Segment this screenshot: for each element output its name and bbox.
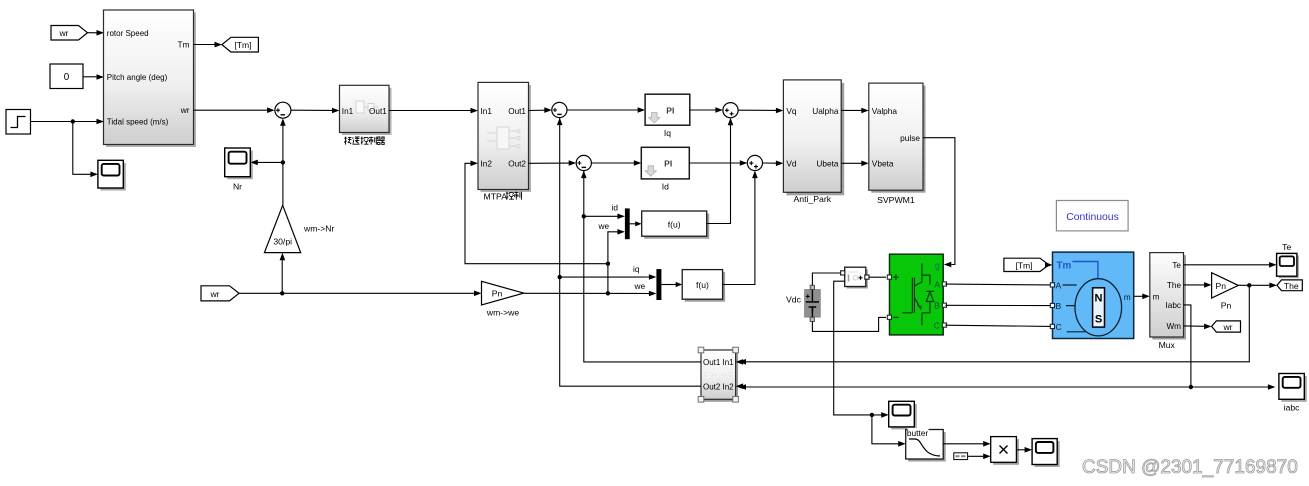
wire current measurement to inverter plus xyxy=(869,276,886,278)
svg-text:In2: In2 xyxy=(723,382,735,391)
wire we to MTPA In2 xyxy=(465,161,608,264)
svg-text:SVPWM1: SVPWM1 xyxy=(877,195,915,205)
svg-text:m: m xyxy=(1124,292,1131,302)
wire Ubeta to Vbeta xyxy=(841,161,869,167)
wire we branch up to mux1 we input xyxy=(608,229,625,293)
svg-text:wm->we: wm->we xyxy=(486,308,519,318)
svg-text:Vq: Vq xyxy=(786,106,797,116)
subsystem SVPWM1 xyxy=(869,83,926,205)
gain 30/pi (wm->Nr) xyxy=(264,205,334,252)
svg-text:Iabc: Iabc xyxy=(1166,301,1181,310)
svg-text:B: B xyxy=(1056,301,1062,311)
sum junction iq loop xyxy=(552,102,567,117)
wire sum to speed controller In1 xyxy=(291,108,340,114)
junction wr to 30/pi xyxy=(280,291,284,295)
svg-text:wm->Nr: wm->Nr xyxy=(303,224,334,234)
svg-text:Pn: Pn xyxy=(492,289,503,299)
wire MTPA Out2 to id sum xyxy=(529,160,577,166)
wire f(u) upper to sum2 plus xyxy=(707,118,734,224)
svg-text:Ualpha: Ualpha xyxy=(812,106,839,116)
svg-text:C: C xyxy=(934,321,940,331)
junction iabc xyxy=(1189,385,1193,389)
svg-text:In1: In1 xyxy=(723,358,735,367)
wire product to scope xyxy=(1016,447,1032,453)
svg-text:iq: iq xyxy=(633,264,640,274)
wire iq branch to mux2 xyxy=(560,274,657,280)
mux1 (id,we) xyxy=(625,208,642,239)
demux Mux block xyxy=(1150,253,1186,350)
gain Pn (wm->we) xyxy=(482,281,524,317)
svg-text:Tidal speed (m/s): Tidal speed (m/s) xyxy=(107,118,169,127)
svg-text:Tm: Tm xyxy=(178,39,190,49)
svg-text:Id: Id xyxy=(662,182,669,192)
junction we to MTPA In2 xyxy=(606,262,610,266)
goto tag The xyxy=(1277,280,1302,291)
wire PI Id to sum4 xyxy=(689,160,747,166)
wire inverter A to motor A xyxy=(945,283,1050,286)
wire wr to Pn gain xyxy=(239,291,482,297)
svg-text:In1: In1 xyxy=(481,107,493,116)
svg-text:Tm: Tm xyxy=(1057,261,1072,272)
svg-text:Vbeta: Vbeta xyxy=(872,158,894,168)
svg-text:C: C xyxy=(1056,322,1062,332)
PI controller Id xyxy=(641,147,689,191)
svg-text:iabc: iabc xyxy=(1284,403,1300,413)
dc source Vdc xyxy=(786,285,820,321)
subsystem dq transform (Out1 In1 / Out2 In2, selected) xyxy=(698,347,743,402)
wire wr tag to turbine rotor Speed input xyxy=(88,30,105,36)
junction The xyxy=(1247,283,1251,287)
junction on 30/pi output xyxy=(281,160,285,164)
wire id sum to PI Id xyxy=(591,160,641,166)
svg-text:Pn: Pn xyxy=(1221,301,1232,311)
svg-text:The: The xyxy=(1167,281,1182,290)
scope power xyxy=(1032,439,1060,467)
small from tag (constant) xyxy=(954,453,968,460)
wire branch down to scope xyxy=(73,122,98,178)
wire Ualpha to Valpha xyxy=(841,108,869,114)
wire Mux Wm to goto tag wr xyxy=(1184,324,1212,330)
svg-text:f(u): f(u) xyxy=(696,280,709,290)
svg-text:Vd: Vd xyxy=(786,158,797,168)
svg-text:Out2: Out2 xyxy=(703,382,721,391)
svg-text:f(u): f(u) xyxy=(668,219,681,229)
goto tag [Tm] xyxy=(222,37,259,52)
svg-text:Nr: Nr xyxy=(233,182,242,192)
svg-text:Out1: Out1 xyxy=(508,107,526,116)
from tag wr (rotor speed input) xyxy=(51,26,88,41)
subsystem MTPA控制 xyxy=(478,82,531,192)
svg-text:[Tm]: [Tm] xyxy=(234,40,251,50)
wire f(u) lower to sum4 plus xyxy=(723,171,758,285)
svg-text:Pitch angle (deg): Pitch angle (deg) xyxy=(107,73,168,82)
svg-text:Mux: Mux xyxy=(1159,340,1176,350)
scope Nr (flipped) xyxy=(225,148,253,192)
wire Vdc plus to current measurement xyxy=(812,273,841,285)
wire Pn to goto tag The xyxy=(1238,283,1277,289)
junction iq to mux2 xyxy=(558,275,562,279)
scope iabc xyxy=(1279,374,1307,413)
wire dq Out2 (iq) feedback xyxy=(557,118,701,387)
svg-text:Te: Te xyxy=(1282,242,1291,252)
svg-text:PI: PI xyxy=(666,105,674,115)
wire inverter B to motor B xyxy=(945,304,1050,306)
svg-text:id: id xyxy=(612,203,619,213)
sum junction vq xyxy=(723,103,738,118)
wire iabc to dq block In2 xyxy=(739,384,1191,390)
label MTPA控制 xyxy=(484,192,522,202)
from tag wr (bottom) xyxy=(201,286,239,301)
mux2 (iq,we) xyxy=(656,269,682,300)
svg-text:In1: In1 xyxy=(342,107,354,116)
wire Vdc minus loop to inverter minus xyxy=(812,317,886,331)
junction step branch xyxy=(71,119,75,123)
svg-text:Out1: Out1 xyxy=(369,107,387,116)
junction idc xyxy=(870,413,874,417)
svg-text:Pn: Pn xyxy=(1216,281,1227,291)
svg-text:30/pi: 30/pi xyxy=(273,237,292,247)
sum junction id loop xyxy=(576,155,591,170)
svg-text:Ubeta: Ubeta xyxy=(816,158,839,168)
svg-text:A: A xyxy=(1056,281,1062,291)
subsystem: tidal turbine block xyxy=(104,10,197,147)
wire Tm output to goto tag xyxy=(194,42,223,48)
wire wr output to speed sum xyxy=(194,107,275,113)
wire dq Out1 (id) feedback xyxy=(581,170,701,362)
wire PI Iq to sum2 xyxy=(690,107,723,113)
wire pulse to inverter g xyxy=(923,138,955,268)
wire speed controller to MTPA In1 xyxy=(389,108,478,114)
wire junction to Nr scope (enters right side) xyxy=(250,160,283,166)
sum junction speed error xyxy=(275,102,291,118)
svg-text:Wm: Wm xyxy=(1166,322,1181,331)
wire wr line up into 30/pi xyxy=(280,253,286,293)
wire constant to Pitch angle input xyxy=(83,74,104,80)
svg-text:Continuous: Continuous xyxy=(1066,212,1119,223)
svg-text:Out2: Out2 xyxy=(508,160,526,169)
svg-text:S: S xyxy=(1095,314,1102,326)
svg-text:Te: Te xyxy=(1172,261,1181,270)
svg-text:A: A xyxy=(934,279,940,289)
svg-text:The: The xyxy=(1284,281,1299,291)
wire inverter C to motor C xyxy=(945,325,1050,326)
current measurement block xyxy=(841,267,869,288)
wire motor m to Mux xyxy=(1134,294,1150,300)
svg-text:N: N xyxy=(1095,293,1103,305)
wire The branch down to dq block In1 xyxy=(739,285,1250,364)
sum junction vd xyxy=(747,155,762,170)
wire Pn to mux2 we input xyxy=(524,291,657,297)
svg-text:CSDN @2301_77169870: CSDN @2301_77169870 xyxy=(1082,457,1298,478)
scope idc xyxy=(889,401,917,429)
svg-text:MTPA: MTPA xyxy=(484,192,508,202)
wire [Tm] to motor Tm xyxy=(1045,262,1053,268)
PI controller Iq xyxy=(645,94,690,138)
svg-text:Out1: Out1 xyxy=(703,358,721,367)
wire 30/pi output up to sum (minus) xyxy=(280,118,286,205)
junction id to mux1 xyxy=(582,214,586,218)
from tag [Tm] (to motor) xyxy=(1004,258,1049,271)
wire sum4 to Anti_Park Vd xyxy=(763,161,784,167)
svg-text:Valpha: Valpha xyxy=(872,106,898,116)
wire measured idc down to scope and filter xyxy=(834,281,889,418)
wire step to Tidal speed input xyxy=(31,119,105,125)
svg-text:we: we xyxy=(598,221,610,231)
PMSM motor block (blue) xyxy=(1050,252,1133,338)
wire Mux The to Pn gain xyxy=(1184,282,1212,288)
wire butter to product xyxy=(943,441,991,447)
svg-text:we: we xyxy=(634,281,646,291)
wire MTPA Out1 to iq sum xyxy=(529,107,552,113)
svg-text:m: m xyxy=(1153,293,1160,302)
wire small tag to product xyxy=(968,454,991,460)
wire Mux Te to scope Te xyxy=(1184,262,1277,268)
wire iq sum to PI Iq xyxy=(567,107,645,113)
inverter bridge (green) xyxy=(887,254,946,335)
subsystem Anti_Park xyxy=(783,80,844,204)
product block xyxy=(991,437,1019,465)
wire Mux Iabc down to iabc scope and dq In2 xyxy=(1184,305,1276,390)
svg-text:B: B xyxy=(934,301,940,311)
subsystem 转速控制器 (speed controller) xyxy=(340,85,392,135)
label 转速控制器 xyxy=(344,137,385,145)
svg-text:wr: wr xyxy=(1222,322,1232,332)
fcn block f(u) lower xyxy=(682,270,725,302)
svg-text:0: 0 xyxy=(64,72,70,83)
powergui Continuous xyxy=(1056,201,1128,231)
svg-text:PI: PI xyxy=(664,159,672,169)
wire sum2 to Anti_Park Vq xyxy=(738,108,783,114)
junction we branch xyxy=(606,291,610,295)
svg-text:pulse: pulse xyxy=(900,133,920,143)
svg-text:Anti_Park: Anti_Park xyxy=(793,194,831,204)
svg-text:wr: wr xyxy=(180,105,190,115)
goto tag wr xyxy=(1212,321,1241,332)
svg-text:Iq: Iq xyxy=(664,128,671,138)
gain Pn (pole pairs) xyxy=(1212,273,1239,311)
svg-text:[Tm]: [Tm] xyxy=(1015,260,1032,270)
analog filter butter xyxy=(906,428,946,462)
svg-text:Vdc: Vdc xyxy=(786,295,802,305)
svg-text:wr: wr xyxy=(58,28,68,38)
scope Te xyxy=(1277,242,1299,278)
fcn block f(u) upper xyxy=(642,211,710,239)
svg-text:wr: wr xyxy=(209,289,219,299)
scope (tidal speed) xyxy=(98,160,126,190)
wire id branch to mux1 xyxy=(584,214,625,220)
wire idc branch to butter filter xyxy=(872,415,906,447)
constant 0 xyxy=(50,64,83,89)
svg-text:g: g xyxy=(935,260,940,270)
svg-text:In2: In2 xyxy=(481,160,493,169)
svg-text:rotor Speed: rotor Speed xyxy=(107,29,149,38)
step source xyxy=(6,110,31,135)
svg-text:butter: butter xyxy=(907,428,928,438)
